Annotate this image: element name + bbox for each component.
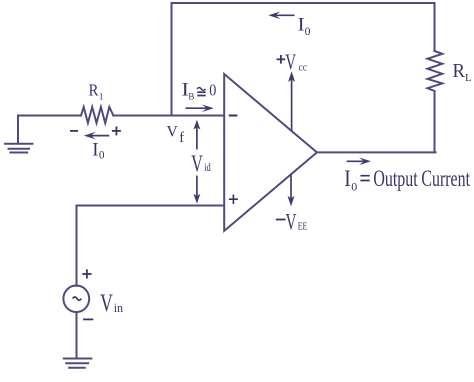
label +Vcc xyxy=(277,49,308,74)
arrow IB xyxy=(186,104,214,112)
wire Vin bottom xyxy=(76,312,78,358)
label minus under R1 xyxy=(70,130,78,132)
svg-text:EE: EE xyxy=(298,222,308,233)
wire RL to output node xyxy=(434,91,436,152)
arrow output current xyxy=(347,158,371,166)
svg-text:Current: Current xyxy=(421,166,470,192)
svg-text:V: V xyxy=(167,123,179,140)
label minus at Vin xyxy=(83,318,93,320)
wire right vertical to RL xyxy=(434,3,436,51)
wire inverting input left segment xyxy=(18,115,81,117)
ground left xyxy=(5,144,32,153)
svg-text:f: f xyxy=(179,130,184,146)
op-amp U1 xyxy=(224,74,317,231)
wire Vin top xyxy=(76,206,78,286)
arrow I0 top xyxy=(268,12,294,20)
label R1 xyxy=(89,81,104,103)
svg-text:V: V xyxy=(286,210,297,236)
label I0 top xyxy=(298,15,311,38)
label RL xyxy=(453,60,472,84)
svg-text:B: B xyxy=(188,92,194,102)
label plus pin xyxy=(229,195,238,205)
resistor R1 xyxy=(81,107,113,123)
label -VEE xyxy=(276,210,308,236)
wire feedback left vertical xyxy=(171,3,173,116)
ground bottom xyxy=(64,359,92,368)
arrow -VEE xyxy=(288,175,295,207)
svg-text:Output: Output xyxy=(373,166,418,192)
label I0 under R1 xyxy=(92,140,105,161)
svg-text:in: in xyxy=(114,301,124,315)
svg-text:0: 0 xyxy=(209,81,216,100)
wire feedback top xyxy=(172,2,435,4)
wire inverting input right segment xyxy=(113,115,224,117)
svg-text:0: 0 xyxy=(305,25,311,38)
wire output xyxy=(317,151,436,153)
svg-text:V: V xyxy=(100,290,113,317)
svg-text:I: I xyxy=(298,15,305,36)
source Vin xyxy=(63,286,89,313)
svg-text:0: 0 xyxy=(99,149,105,161)
label Vin xyxy=(100,290,124,317)
label IB approx 0 xyxy=(182,81,217,102)
resistor RL xyxy=(428,51,443,91)
svg-text:R: R xyxy=(453,60,466,82)
label tilde in Vin xyxy=(73,297,82,300)
svg-text:V: V xyxy=(191,151,203,178)
arrow Vid down xyxy=(193,176,200,204)
svg-text:I: I xyxy=(344,166,351,192)
svg-text:R: R xyxy=(89,81,99,100)
svg-text:id: id xyxy=(204,160,211,174)
label Vid xyxy=(191,151,211,178)
svg-text:cc: cc xyxy=(299,62,308,73)
label plus under R1 xyxy=(112,126,121,135)
arrow I0 under R1 xyxy=(84,132,109,140)
wire non-inverting input xyxy=(77,205,225,207)
svg-text:V: V xyxy=(285,49,296,74)
svg-text:L: L xyxy=(465,72,472,84)
label Vf xyxy=(167,123,185,145)
svg-text:1: 1 xyxy=(99,92,104,103)
arrow Vid up xyxy=(193,120,200,150)
label plus at Vin xyxy=(82,269,91,278)
label minus pin xyxy=(229,115,238,117)
svg-text:I: I xyxy=(92,140,98,160)
label I0 = Output Current xyxy=(344,166,470,193)
wire ground drop left xyxy=(17,116,19,144)
arrow +Vcc xyxy=(288,71,295,131)
svg-text:0: 0 xyxy=(351,179,357,193)
